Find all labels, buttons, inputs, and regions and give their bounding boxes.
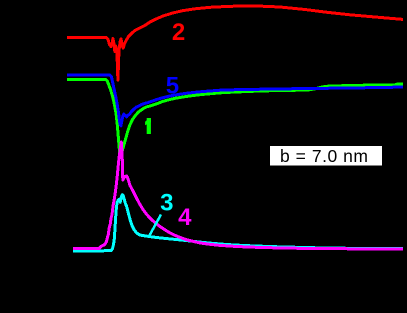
curve 1 (green): [67, 80, 403, 155]
curve 4 (magenta): [73, 142, 403, 249]
curve 5 (blue): [67, 75, 403, 126]
annotation box b = 7.0 nm: [270, 146, 382, 166]
svg-text:4: 4: [178, 204, 192, 231]
svg-text:2: 2: [172, 19, 185, 46]
svg-text:b = 7.0 nm: b = 7.0 nm: [280, 146, 368, 166]
curve 2 (red): [67, 6, 403, 80]
svg-text:3: 3: [160, 189, 173, 216]
svg-text:5: 5: [166, 73, 179, 100]
curve 3 (cyan): [73, 195, 403, 251]
pointer line from label 3 to cyan curve: [149, 215, 161, 238]
label 1 (green): [145, 118, 151, 134]
